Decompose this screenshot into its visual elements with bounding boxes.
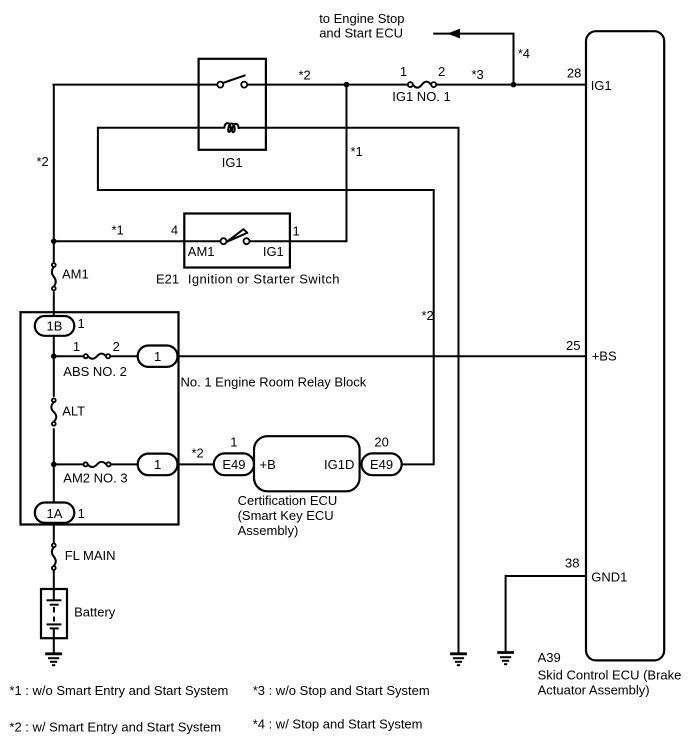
svg-text:E21: E21 [156, 272, 179, 287]
connector 1A [35, 503, 75, 523]
svg-text:1: 1 [78, 316, 85, 331]
svg-text:Skid Control ECU (Brake: Skid Control ECU (Brake [538, 668, 682, 683]
svg-text:2: 2 [113, 339, 120, 354]
svg-text:1A: 1A [47, 506, 63, 521]
fuse IG1 NO. 1 [408, 82, 413, 87]
wire: FL MAIN to battery [53, 570, 55, 600]
ground (battery) [45, 654, 62, 665]
svg-text:ALT: ALT [62, 404, 85, 419]
junction node AM2 row [51, 462, 57, 468]
svg-text:AM1: AM1 [62, 267, 89, 282]
wire: ABS row [54, 355, 84, 357]
svg-text:AM2 NO. 3: AM2 NO. 3 [63, 471, 127, 486]
svg-text:*2: *2 [192, 446, 204, 461]
svg-text:ABS NO. 2: ABS NO. 2 [63, 364, 127, 379]
svg-text:GND1: GND1 [591, 570, 627, 585]
wire: relay block internal vertical 1B to ALT [53, 335, 55, 397]
svg-text:IG1: IG1 [591, 78, 612, 93]
ground (GND1) [497, 653, 514, 665]
junction node at top wire x=513.5 [511, 82, 517, 88]
svg-text:Battery: Battery [74, 605, 116, 620]
svg-text:*2: *2 [299, 68, 311, 83]
svg-text:+B: +B [260, 457, 276, 472]
battery plates [47, 599, 62, 601]
svg-text:IG1D: IG1D [324, 457, 354, 472]
wire: relay switch output to fuse IG1 NO.1 [247, 84, 408, 86]
svg-text:Certification ECU: Certification ECU [238, 493, 338, 508]
wire: E21 row from left vertical to box [54, 240, 221, 242]
svg-text:A39: A39 [538, 650, 561, 665]
fuse AM1 (vertical) [52, 263, 56, 267]
svg-text:4: 4 [171, 223, 178, 238]
wire: fuse IG1 NO.1 to ECU pin 28 [437, 84, 587, 86]
fuse ABS NO. 2 [84, 354, 88, 358]
wire: left vertical below AM1 fuse to 1B [53, 291, 55, 317]
ground (coil return) [450, 654, 467, 665]
svg-text:1: 1 [73, 339, 80, 354]
svg-text:*1 : w/o Smart Entry and Start: *1 : w/o Smart Entry and Start System [9, 683, 228, 698]
wire: 1A down to FL MAIN [53, 523, 55, 543]
relay IG1 switch contact left [217, 82, 223, 88]
wire: relay coil row inside box [199, 127, 225, 129]
relay IG1 switch contact right [241, 82, 247, 88]
wire: GND1 to ground [506, 576, 586, 652]
svg-text:*4 : w/ Stop and Start System: *4 : w/ Stop and Start System [253, 717, 423, 732]
E21 box [184, 214, 290, 268]
svg-text:Actuator Assembly): Actuator Assembly) [538, 683, 650, 698]
svg-text:1: 1 [293, 224, 300, 239]
junction node at top wire x=346.5 [344, 82, 350, 88]
svg-text:1: 1 [154, 349, 161, 364]
connector E49 left [214, 453, 254, 475]
relay IG1 coil [224, 123, 238, 132]
wire: battery to ground [53, 628, 55, 653]
fuse AM2 NO. 3 [84, 462, 88, 466]
fuse ALT (fusible link, vertical) [52, 398, 56, 402]
svg-text:+BS: +BS [592, 349, 617, 364]
svg-text:25: 25 [566, 338, 580, 353]
connector 1B [35, 316, 75, 336]
wire: +BS row to ECU pin 25 [178, 355, 587, 357]
svg-text:AM1: AM1 [188, 244, 215, 259]
connector 1 (ABS row) [138, 346, 178, 367]
svg-text:1: 1 [154, 457, 161, 472]
wire: relay block internal vertical ALT to 1A [53, 428, 55, 503]
wire: AM2 row [54, 463, 83, 465]
battery [41, 589, 67, 638]
svg-text:*4: *4 [518, 46, 530, 61]
svg-text:E49: E49 [222, 457, 245, 472]
wire: AM2 row from relay block to E49 [178, 463, 216, 465]
wire: left vertical main feed [53, 85, 55, 263]
E21 key lever wedge [227, 229, 248, 242]
svg-text:2: 2 [438, 64, 445, 79]
svg-text:No. 1 Engine Room Relay Block: No. 1 Engine Room Relay Block [181, 375, 367, 390]
wire: coil right to ground [266, 128, 459, 653]
svg-text:E49: E49 [370, 457, 393, 472]
svg-text:IG1: IG1 [222, 155, 243, 170]
svg-text:Ignition or Starter Switch: Ignition or Starter Switch [188, 272, 340, 287]
svg-text:IG1: IG1 [263, 244, 284, 259]
svg-text:FL MAIN: FL MAIN [65, 548, 116, 563]
wire: coil left return, down and across to Certification ECU IG1D [98, 128, 434, 465]
wire: *1 branch from junction down to E21 pin 1 [290, 85, 347, 242]
wire: top row y=84.6 from left vertical to relay box [53, 84, 218, 86]
svg-text:*1: *1 [351, 144, 363, 159]
relay block box [21, 312, 179, 524]
svg-text:*2: *2 [422, 308, 434, 323]
connector E49 right [362, 453, 402, 475]
svg-text:Assembly): Assembly) [238, 523, 299, 538]
junction node ABS row [51, 353, 57, 359]
svg-text:1: 1 [230, 435, 237, 450]
junction node at left vertical / E21 row [51, 238, 57, 244]
svg-text:(Smart Key ECU: (Smart Key ECU [238, 508, 334, 523]
svg-text:*3: *3 [472, 67, 484, 82]
svg-text:IG1 NO. 1: IG1 NO. 1 [392, 89, 451, 104]
connector 1 (AM2 row) [138, 454, 178, 476]
svg-text:38: 38 [565, 556, 579, 571]
svg-text:*2 : w/ Smart Entry and Start: *2 : w/ Smart Entry and Start System [9, 720, 221, 735]
svg-text:20: 20 [374, 435, 388, 450]
svg-text:*3 : w/o Stop and Start System: *3 : w/o Stop and Start System [253, 683, 430, 698]
relay IG1 box [199, 59, 266, 150]
svg-text:and Start ECU: and Start ECU [319, 26, 403, 41]
E21 key switch contacts [221, 238, 227, 244]
wire: *4 branch up with arrow to Engine Stop and Start ECU [433, 34, 513, 85]
relay IG1 switch lever [223, 75, 246, 83]
Certification ECU box [254, 436, 360, 491]
svg-text:1: 1 [400, 64, 407, 79]
svg-text:*1: *1 [112, 223, 124, 238]
fuse FL MAIN (fusible link) [52, 543, 56, 547]
svg-text:*2: *2 [37, 154, 49, 169]
svg-text:1B: 1B [47, 319, 63, 334]
svg-text:to Engine Stop: to Engine Stop [319, 11, 404, 26]
svg-text:28: 28 [567, 66, 581, 81]
Skid Control ECU box A39 [586, 31, 664, 660]
arrowhead [447, 29, 460, 39]
svg-text:1: 1 [78, 506, 85, 521]
